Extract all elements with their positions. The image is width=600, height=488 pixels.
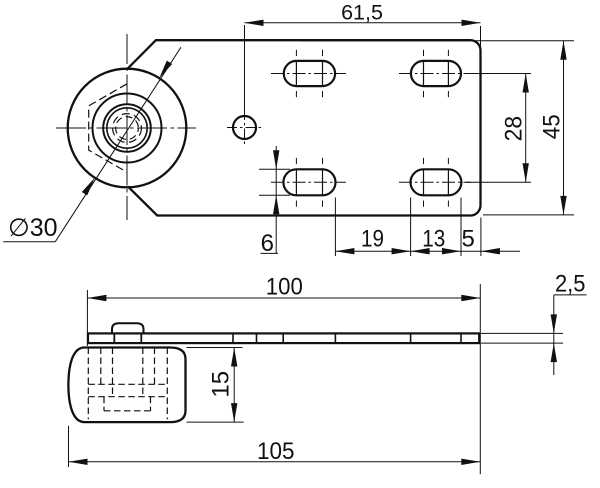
side view: flat bar (plate edge view) bbox=[88, 333, 479, 343]
dimension Ø30 leader bbox=[55, 47, 181, 241]
small hole centerline horizontal bbox=[227, 127, 262, 129]
roller body (side view) bbox=[68, 348, 185, 423]
bearing circle 4 bbox=[107, 108, 147, 148]
svg-text:6: 6 bbox=[261, 230, 274, 257]
dimension 15 bbox=[187, 347, 243, 349]
bearing circle 2 bbox=[93, 94, 162, 163]
svg-text:2,5: 2,5 bbox=[555, 271, 586, 298]
slot hole top-left bbox=[284, 61, 335, 86]
svg-text:28: 28 bbox=[501, 116, 528, 142]
hidden lines inside roller bbox=[87, 348, 89, 420]
bearing circle 3 bbox=[103, 104, 151, 152]
svg-text:13: 13 bbox=[422, 225, 445, 252]
dimension 45 bbox=[300, 40, 574, 42]
dimension 28 bbox=[466, 73, 531, 75]
slot centerline verticals top row bbox=[295, 61, 297, 86]
svg-text:15: 15 bbox=[207, 371, 234, 398]
svg-text:61,5: 61,5 bbox=[341, 0, 383, 24]
svg-text:5: 5 bbox=[462, 225, 475, 252]
pin head above bar bbox=[112, 323, 144, 333]
dimension 6 bbox=[259, 168, 290, 170]
svg-text:105: 105 bbox=[257, 438, 295, 465]
slot hole bottom-right bbox=[411, 169, 462, 195]
dimension 100 bbox=[86, 290, 88, 346]
plate outline (top view) bbox=[128, 40, 481, 215]
small hole bbox=[233, 116, 256, 139]
hidden thread circle inner bbox=[116, 117, 139, 140]
bar division lines at hole/slot edges bbox=[232, 333, 234, 343]
dimension 2,5 bbox=[554, 294, 587, 296]
dimension 105 bbox=[68, 426, 70, 467]
hidden hexagon nut bbox=[89, 84, 127, 172]
dimension 61,5 bbox=[244, 25, 246, 113]
svg-text:100: 100 bbox=[266, 274, 303, 301]
svg-text:19: 19 bbox=[361, 225, 384, 252]
pin hole edges in bar bbox=[113, 333, 115, 343]
slot hole bottom-left bbox=[283, 169, 335, 195]
centerline horizontal of roller bbox=[56, 127, 196, 129]
svg-text:45: 45 bbox=[538, 114, 565, 139]
small hole centerline vertical bbox=[244, 110, 246, 145]
slot hole top-right bbox=[411, 61, 461, 86]
slot centerline horizontal bottom row bbox=[271, 181, 346, 183]
svg-text:∅30: ∅30 bbox=[8, 214, 58, 242]
dimensions 19 / 13 / 5 bbox=[334, 198, 336, 257]
centerline vertical of roller bbox=[126, 34, 128, 220]
slot centerline horizontal top row bbox=[271, 73, 346, 75]
roller outer circle Ø30 (top view) bbox=[68, 69, 187, 188]
slot centerline verticals bottom row bbox=[295, 169, 297, 195]
hidden thread circle outer bbox=[113, 114, 142, 143]
